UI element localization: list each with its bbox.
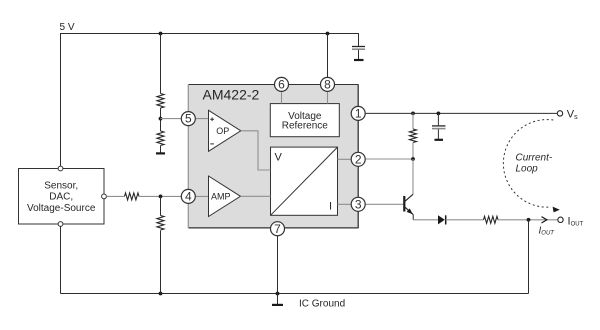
wire R5 to Iout terminal: [498, 219, 558, 221]
wire pin3 to base: [358, 203, 403, 205]
resistor R1: [157, 94, 164, 108]
svg-text:2: 2: [355, 152, 362, 166]
resistor R3: [157, 216, 164, 230]
node junction collector: [411, 157, 415, 161]
svg-text:I: I: [329, 201, 332, 213]
wire R1 to node: [160, 108, 162, 131]
terminal circle box right: [102, 194, 107, 199]
resistor R4: [410, 129, 417, 142]
pin 6: [275, 77, 289, 91]
wire AMP output to V/I box: [241, 195, 271, 197]
wire Rh1 to pin 4: [139, 195, 209, 197]
svg-text:Sensor,: Sensor,: [44, 180, 78, 191]
capacitor C1: [352, 47, 365, 61]
svg-text:IOUT: IOUT: [539, 225, 556, 236]
box sensor / DAC / voltage source: [19, 169, 105, 225]
box V/I converter: [271, 147, 338, 215]
resistor R2: [157, 131, 164, 145]
svg-text:AM422-2: AM422-2: [203, 87, 260, 103]
svg-text:AMP: AMP: [211, 192, 231, 202]
amplifier AMP: [209, 176, 241, 217]
node junction on 5V rail at R1: [159, 32, 163, 36]
ground symbol IC ground: [272, 294, 283, 305]
wire Iout node to ground rail: [528, 220, 530, 294]
pin 7: [271, 222, 285, 236]
node junction pin5 divider: [159, 117, 163, 121]
wire emitter to diode: [413, 219, 438, 221]
node junction ground rail at pin7: [276, 292, 280, 296]
pin 5: [181, 112, 195, 126]
terminal circle box bottom: [58, 222, 63, 227]
svg-text:7: 7: [274, 222, 281, 236]
node junction pin1 rail at C2: [437, 112, 441, 116]
wire pin8 to voltage reference: [327, 84, 329, 103]
wire box bottom to ground rail: [60, 226, 62, 293]
wire pin6 to voltage reference: [281, 84, 283, 103]
wire diode to R5: [446, 219, 484, 221]
capacitor C2: [432, 113, 446, 139]
node junction pin4 divider: [159, 195, 163, 199]
ground stub below R2: [156, 152, 165, 154]
svg-text:6: 6: [278, 78, 285, 92]
svg-text:IOUT: IOUT: [568, 215, 584, 227]
node junction pin1 rail at R4: [411, 112, 415, 116]
svg-text:IC Ground: IC Ground: [299, 298, 345, 309]
transistor Q1: [404, 159, 413, 220]
wire V/I box to pin 2: [338, 158, 359, 160]
pin 8: [321, 77, 335, 91]
resistor R5: [484, 216, 498, 223]
svg-text:V: V: [275, 152, 283, 164]
wire R2 to stub: [160, 146, 162, 153]
wire box right terminal to Rh1: [107, 195, 125, 197]
diode D1: [438, 215, 446, 224]
resistor Rh1 horizontal: [125, 193, 139, 200]
wire R4 to pin2 node: [412, 143, 414, 160]
svg-text:Reference: Reference: [282, 121, 329, 132]
op-amp OP: [209, 110, 241, 151]
svg-text:Loop: Loop: [516, 164, 539, 175]
pin 1: [351, 106, 365, 120]
wire pin2 to collector node: [358, 158, 413, 160]
svg-text:5: 5: [185, 112, 192, 126]
svg-text:5 V: 5 V: [60, 22, 75, 33]
pin 3: [351, 197, 365, 211]
wire junction to R4: [412, 113, 414, 129]
wire OP output to V/I box: [241, 131, 271, 170]
wire 5V rail to C1: [358, 33, 360, 46]
node junction Iout drop: [527, 218, 531, 222]
node junction ground rail at x=160: [159, 292, 163, 296]
wire node to pin 5: [161, 118, 209, 120]
svg-text:4: 4: [185, 190, 192, 204]
svg-text:8: 8: [324, 78, 331, 92]
pin 2: [351, 152, 365, 166]
arrow current direction on Iout wire: [542, 217, 547, 223]
terminal Vs: [557, 111, 562, 116]
terminal Iout: [558, 217, 563, 222]
svg-text:DAC,: DAC,: [49, 192, 73, 203]
IC body U1 AM422-2: [188, 84, 358, 228]
wire rail to pin 8: [327, 34, 329, 85]
wire V/I box to pin 3: [338, 203, 359, 205]
svg-text:1: 1: [355, 107, 362, 121]
wire 5V rail to sensor box: [60, 33, 62, 166]
wire dashed current loop arc: [503, 120, 553, 208]
wire pin7 to ground rail: [277, 236, 279, 294]
node junction on 5V rail at pin8: [326, 32, 330, 36]
wire 5V rail: [61, 33, 359, 35]
wire pin1 to Vs terminal: [358, 112, 557, 114]
wire node to R3: [160, 196, 162, 215]
svg-text:OP: OP: [216, 126, 229, 136]
box voltage reference: [270, 104, 339, 137]
svg-text:3: 3: [355, 197, 362, 211]
arrow current loop end: [553, 207, 560, 213]
wire rail to R1: [160, 34, 162, 94]
wire R3 to ground rail: [160, 231, 162, 294]
pin 4: [181, 189, 195, 203]
terminal circle box top: [58, 166, 63, 171]
svg-text:Voltage-Source: Voltage-Source: [27, 203, 96, 214]
svg-text:Vs: Vs: [567, 108, 578, 121]
svg-text:Current-: Current-: [516, 153, 553, 164]
wire ground rail: [61, 293, 529, 295]
